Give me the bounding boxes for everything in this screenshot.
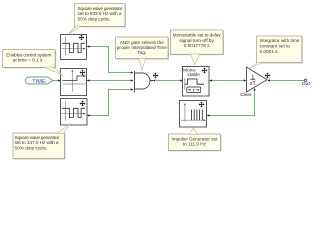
svg-text:Tag.: Tag. — [137, 50, 146, 55]
svg-text:Square wave generator: Square wave generator — [15, 135, 60, 140]
svg-text:50% duty cycle.: 50% duty cycle. — [15, 145, 48, 150]
svg-text:to 111.0 Hz: to 111.0 Hz — [183, 142, 207, 147]
svg-text:Impulse Generator set: Impulse Generator set — [171, 137, 218, 142]
svg-text:sT: sT — [250, 81, 257, 87]
svg-text:proper Interpolated Time: proper Interpolated Time — [117, 45, 167, 50]
svg-text:Enables control system: Enables control system — [6, 53, 51, 58]
svg-text:at time = 0.1 s .: at time = 0.1 s . — [13, 58, 45, 63]
svg-text:Monostable set to delay: Monostable set to delay — [173, 33, 222, 38]
svg-text:0.0001 s.: 0.0001 s. — [260, 49, 279, 54]
svg-text:Mono-: Mono- — [183, 67, 197, 72]
svg-text:Out: Out — [302, 81, 311, 87]
svg-text:signal turn-off by: signal turn-off by — [179, 38, 214, 43]
svg-text:stable: stable — [187, 72, 200, 77]
svg-text:TIME: TIME — [32, 79, 46, 85]
svg-text:50% duty cycle.: 50% duty cycle. — [78, 16, 111, 21]
svg-text:Clear: Clear — [240, 92, 251, 97]
svg-text:set to 347.0 Hz with a: set to 347.0 Hz with a — [15, 140, 59, 145]
svg-text:constant set to: constant set to — [260, 44, 291, 49]
svg-text:0.0017778 s: 0.0017778 s — [184, 43, 210, 48]
svg-text:Square wave generator: Square wave generator — [78, 6, 123, 11]
svg-text:AND gate selects the: AND gate selects the — [120, 40, 164, 45]
svg-text:T: T — [192, 88, 195, 93]
svg-text:set to 633.8 Hz with a: set to 633.8 Hz with a — [78, 11, 122, 16]
svg-text:Integrator with time: Integrator with time — [260, 38, 300, 43]
